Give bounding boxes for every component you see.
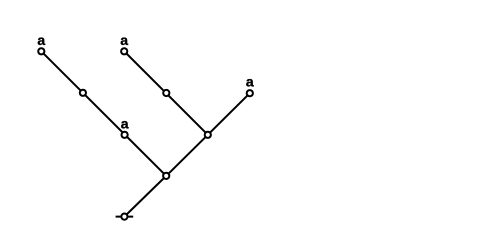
svg-text:a: a [121,115,129,131]
node n6 [163,90,169,96]
wire root horizontal bar [116,216,134,218]
node n9 root [121,214,127,220]
wire left spine (n1 to n4) [41,51,166,176]
svg-text:a: a [246,74,254,90]
node n7 junction [205,132,211,138]
node n5 leaf a [121,48,127,54]
wire right leaf edge (n8 to n7) [208,93,250,135]
node n4 junction [163,173,169,179]
wire root edge (n4 to n9) [124,176,166,217]
node n8 leaf a [247,90,253,96]
node n3 leaf a [122,132,128,138]
node n2 [80,90,86,96]
svg-text:a: a [37,32,45,48]
node n1 leaf a [38,48,44,54]
wire middle spine (n5 to n7) [124,51,208,135]
wire junction edge (n7 to n4) [166,135,208,176]
svg-text:a: a [120,32,128,48]
